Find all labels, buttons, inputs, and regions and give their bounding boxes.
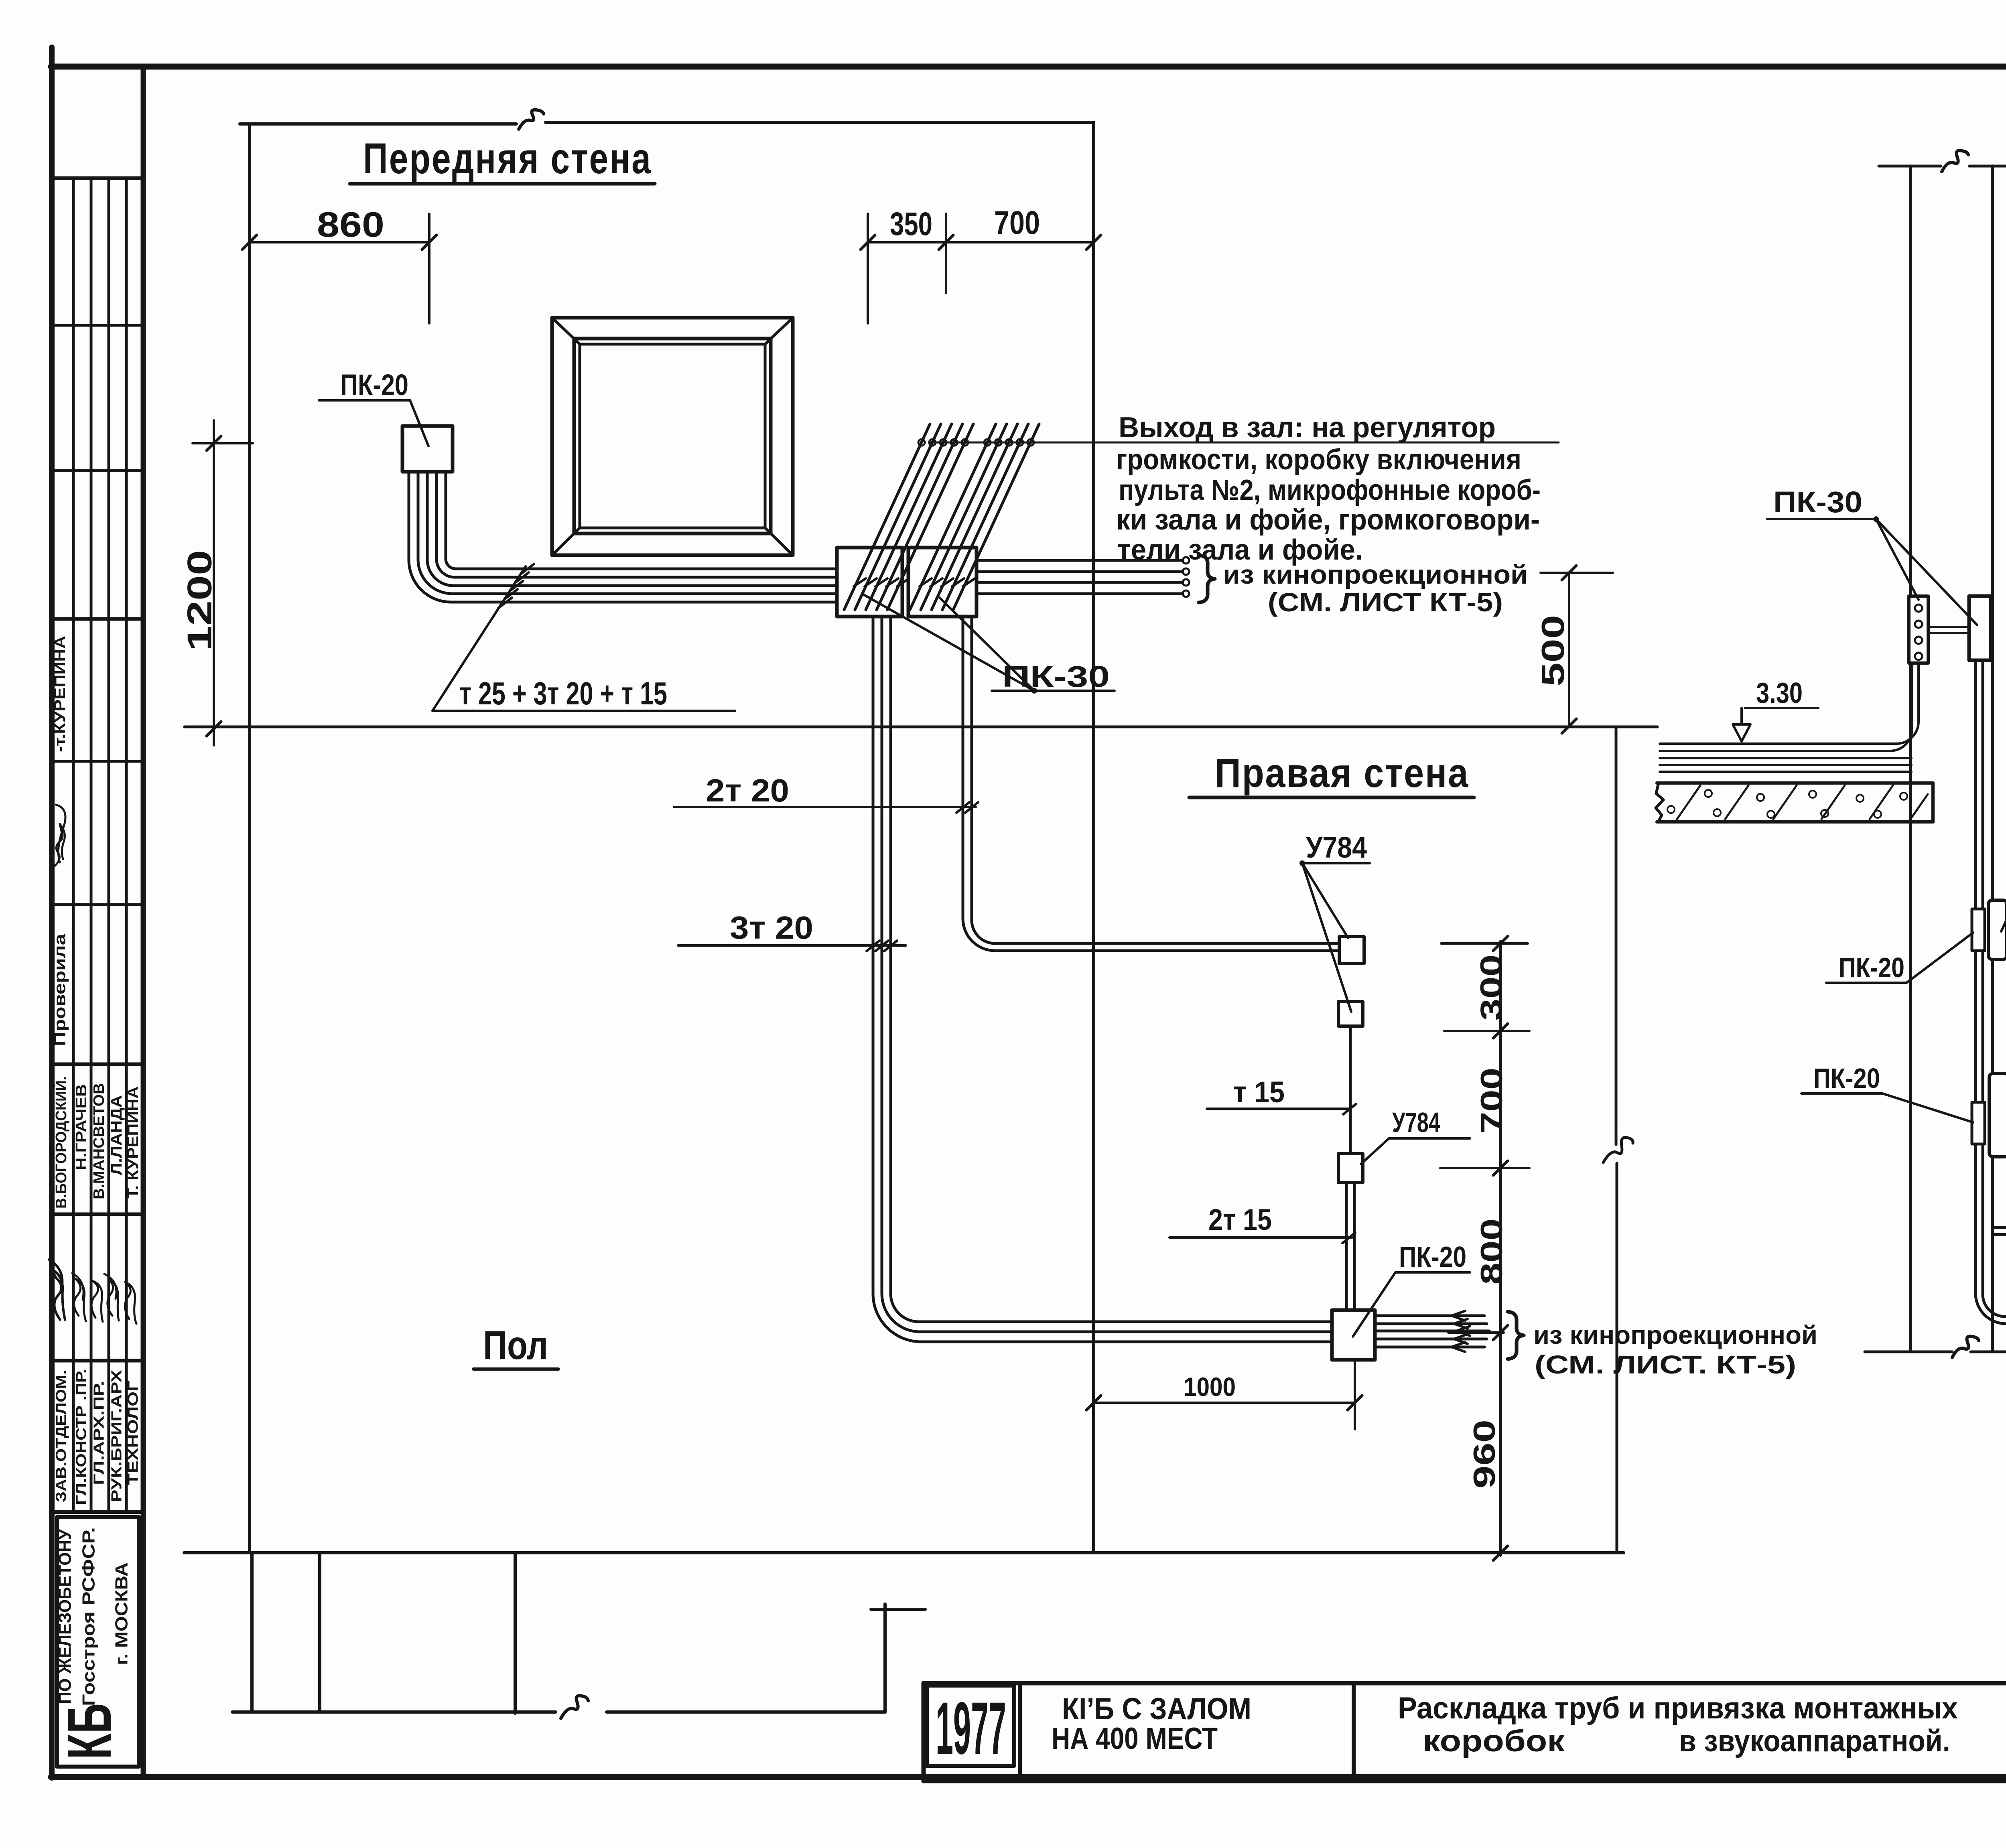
output tube 3 bbox=[1375, 1330, 1489, 1333]
slash ticks 2t20 bbox=[956, 802, 969, 813]
label 2t15 underline bbox=[1169, 1236, 1352, 1239]
stamp row divider y444 bbox=[52, 176, 143, 180]
stamp row divider y1898 bbox=[52, 760, 143, 763]
stamp row divider y1173 bbox=[52, 469, 143, 472]
front wall top edge break squiggle bbox=[519, 110, 544, 129]
floor plan wall stub x2206 bbox=[883, 1604, 887, 1712]
tube triple 3t20 line 1 (from box A down, bend right to PK-20) bbox=[873, 617, 1332, 1342]
svg-text:Выход в зал: на регулятор: Выход в зал: на регулятор bbox=[1119, 412, 1496, 444]
chain terminator y2352 bbox=[1441, 942, 1528, 945]
concrete slab bottom edge bbox=[1657, 820, 1933, 824]
svg-text:3т 20: 3т 20 bbox=[730, 910, 813, 945]
uzel A left boundary line lower part bbox=[1616, 1163, 1618, 1553]
svg-text:Проверила: Проверила bbox=[51, 933, 69, 1046]
dimension tick x2163 bbox=[861, 235, 875, 250]
output tube 2 bbox=[1375, 1323, 1487, 1325]
output tube 1 from box B to hall bbox=[977, 559, 1183, 562]
svg-text:700: 700 bbox=[1475, 1068, 1509, 1134]
stamp column internal vertical 2 bbox=[90, 178, 93, 1512]
svg-text:Передняя стена: Передняя стена bbox=[363, 134, 652, 183]
Pol label underline bbox=[473, 1367, 558, 1371]
box U784 no.2 bbox=[1338, 1002, 1363, 1026]
stamp column inner vertical bbox=[141, 67, 146, 1777]
dimension 860 tick left bbox=[242, 235, 257, 250]
level mark 3.30 triangle bbox=[1733, 724, 1750, 741]
tube 1 from PK-20 (vertical+bend+horizontal to PK-30) bbox=[409, 472, 837, 602]
dimension 860 tick right bbox=[422, 235, 437, 250]
chain terminator y2912 bbox=[1440, 1167, 1529, 1169]
floor line 0.00 lower with step bbox=[1992, 1235, 2006, 1304]
label 2t20 underline bbox=[674, 806, 976, 808]
stamp row divider y2255 bbox=[52, 903, 143, 906]
floor plan wall stub x628 bbox=[250, 1553, 254, 1712]
svg-text:из кинопроекционной: из кинопроекционной bbox=[1223, 560, 1528, 589]
svg-text:960: 960 bbox=[1468, 1420, 1502, 1489]
label PK-20 u1 leader bbox=[1907, 933, 1973, 983]
uzel A boundary break squiggle bbox=[1603, 1137, 1633, 1162]
sheet frame bottom line bbox=[51, 1774, 2006, 1780]
title block bottom line bbox=[924, 1779, 2006, 1783]
leader line to hall (long thin, underlines Vyhod text) bbox=[930, 442, 1559, 444]
tube 4 from PK-20 bbox=[437, 472, 837, 577]
stamp column internal vertical 1 bbox=[72, 178, 75, 1512]
dimension line 350-700 bbox=[868, 241, 1094, 243]
title block top line bbox=[924, 1681, 2006, 1686]
dimension 860 extension line x1070 bbox=[428, 214, 430, 323]
output tube 3 from box B bbox=[977, 581, 1183, 584]
stamp signature (Kurepina autograph, rotated) bbox=[54, 805, 65, 866]
svg-text:(СМ. ЛИСТ. КТ-5): (СМ. ЛИСТ. КТ-5) bbox=[1535, 1350, 1796, 1379]
svg-text:1200: 1200 bbox=[181, 550, 219, 651]
front wall top edge line (left part) bbox=[240, 122, 516, 126]
box PK-20 small lower bbox=[1972, 1102, 1985, 1144]
output tube 2 from box B bbox=[977, 570, 1183, 573]
stamp row divider y3027 bbox=[52, 1213, 143, 1216]
label PK-20 u2 underline bbox=[1801, 1092, 1882, 1095]
dimension 1200 tick bottom bbox=[207, 722, 221, 736]
tube 3 from PK-20 bbox=[427, 472, 837, 586]
stamp row divider y3769 bbox=[52, 1510, 143, 1514]
label PK-20 right wall underline bbox=[1395, 1271, 1470, 1274]
connector tubes between PK-30 boxes bbox=[1928, 626, 1969, 628]
sheet frame left outer line bbox=[49, 47, 55, 1778]
front wall right edge vertical x2726 bbox=[1092, 122, 1095, 1553]
tube t15 between box2 and box3 bbox=[1349, 1026, 1352, 1154]
level mark 3.30 stem bbox=[1740, 708, 1743, 724]
stamp row divider y2653 bbox=[52, 1063, 143, 1066]
svg-text:ГЛ.КОНСТР .ПР.: ГЛ.КОНСТР .ПР. bbox=[73, 1369, 89, 1505]
junction box PK-30 left (edge view with holes) bbox=[1909, 596, 1928, 663]
svg-text:ПК-30: ПК-30 bbox=[1002, 660, 1110, 693]
bundle line4 on slab bbox=[1660, 764, 1911, 766]
uzel A wall right line bbox=[1991, 166, 1994, 1351]
svg-text:ТЕХНОЛОГ: ТЕХНОЛОГ bbox=[125, 1381, 141, 1485]
svg-text:громкости, коробку включения: громкости, коробку включения bbox=[1116, 444, 1521, 476]
svg-text:ПК-20: ПК-20 bbox=[340, 368, 408, 402]
output tube 4 from box B bbox=[977, 592, 1183, 595]
stamp signatures row (rotated squiggles) bbox=[49, 1260, 65, 1320]
svg-text:Пол: Пол bbox=[483, 1323, 548, 1368]
svg-text:500: 500 bbox=[1535, 615, 1571, 686]
dimension 1000 extension below PK-20 bbox=[1354, 1360, 1356, 1429]
curly brace from kinoprojection (front wall) bbox=[1199, 555, 1215, 602]
label PK-20 leader bbox=[410, 400, 428, 446]
floor plan line B break squiggle bbox=[561, 1696, 588, 1718]
svg-text:1977: 1977 bbox=[936, 1687, 1006, 1770]
chain ticks bbox=[1493, 936, 1508, 951]
tube pair 2t15 below box3 bbox=[1345, 1183, 1348, 1310]
chain terminator y3322 bbox=[1448, 1331, 1504, 1334]
level mark 3.30 underline bbox=[1745, 707, 1818, 709]
floor plan lower line B left segment bbox=[232, 1710, 556, 1714]
bundle line3 on slab bbox=[1660, 757, 1911, 759]
svg-text:860: 860 bbox=[317, 205, 384, 244]
floor line 0.00 upper with step bbox=[1992, 1227, 2006, 1296]
title block divider 2 bbox=[1352, 1683, 1356, 1781]
label underline t25+3t20+t15 bbox=[432, 710, 735, 712]
svg-text:ПК-20: ПК-20 bbox=[1399, 1241, 1466, 1273]
svg-text:КБ: КБ bbox=[55, 1703, 124, 1759]
uzel A bottom break squiggle bbox=[1952, 1336, 1979, 1357]
stamp column internal vertical 3 bbox=[108, 178, 110, 1512]
slash ticks in box B bbox=[920, 578, 932, 586]
box PK-20 small upper bbox=[1972, 909, 1985, 951]
label U784 leader to box2 bbox=[1302, 863, 1351, 1012]
dimension 1200 tick top bbox=[207, 436, 221, 450]
svg-text:-т.КУРЕПИНА: -т.КУРЕПИНА bbox=[52, 636, 69, 752]
svg-text:Т. КУРЕПИНА: Т. КУРЕПИНА bbox=[125, 1086, 142, 1199]
title underline bbox=[350, 182, 655, 186]
chain terminator y2570 bbox=[1444, 1030, 1529, 1032]
fork marks at diagonal tops group B bbox=[984, 439, 991, 446]
svg-text:НА 400 МЕСТ: НА 400 МЕСТ bbox=[1052, 1722, 1218, 1756]
label PK-30 underline (front wall) bbox=[992, 690, 1115, 692]
diagonal tube group from box A (5 lines) bbox=[844, 424, 930, 610]
label PK-20 u2 leader bbox=[1882, 1093, 1973, 1122]
label 60K31 leader bbox=[2001, 849, 2006, 931]
dimension 1000 line bbox=[1094, 1402, 1355, 1404]
sheet frame top line bbox=[51, 64, 2006, 70]
junction box PK-20 right wall bbox=[1332, 1310, 1375, 1360]
output tube 1 from PK-20 right wall bbox=[1375, 1314, 1484, 1317]
dimension 1200 top terminator bbox=[193, 442, 253, 444]
title block divider 1 bbox=[1018, 1683, 1022, 1781]
dimension 350/700 extension line x2358 bbox=[945, 214, 947, 293]
tube pair down the wall line2 bbox=[1983, 660, 2006, 1317]
slash ticks on tube bundle bbox=[498, 598, 512, 608]
dimension chain vertical x3740 bbox=[1499, 941, 1502, 1556]
label t15 underline bbox=[1207, 1108, 1349, 1110]
leader for tube bundle label bbox=[432, 566, 526, 711]
stamp row divider y811 bbox=[52, 324, 143, 327]
dimension 1000 ticks bbox=[1086, 1396, 1101, 1410]
svg-text:КІʼБ С ЗАЛОМ: КІʼБ С ЗАЛОМ bbox=[1062, 1692, 1251, 1726]
stamp column internal vertical 4 bbox=[125, 178, 128, 1512]
svg-text:Правая стена: Правая стена bbox=[1215, 750, 1469, 796]
dimension 350 extension line x2163 bbox=[867, 214, 869, 323]
svg-text:Госстроя РСФСР.: Госстроя РСФСР. bbox=[79, 1527, 99, 1706]
tube pair 2t20 line 2 bbox=[972, 617, 1339, 943]
title block left edge bbox=[922, 1683, 926, 1781]
svg-text:РУК.БРИГ.АРХ: РУК.БРИГ.АРХ bbox=[108, 1370, 125, 1502]
window opening inner rect (outer of double) bbox=[574, 339, 771, 534]
stamp org block border bbox=[57, 1517, 139, 1767]
junction box PK-20 front wall bbox=[402, 426, 453, 472]
window bevel diagonal top-left bbox=[552, 318, 580, 344]
dimension tick x2358 bbox=[939, 235, 953, 250]
tube 2 from PK-20 bbox=[418, 472, 837, 594]
label U784 leader to box1 bbox=[1302, 863, 1348, 938]
floor plan wall stub x1284 bbox=[514, 1553, 517, 1713]
svg-text:1000: 1000 bbox=[1184, 1372, 1236, 1402]
svg-text:(СМ. ЛИСТ КТ-5): (СМ. ЛИСТ КТ-5) bbox=[1268, 587, 1503, 617]
svg-text:ПК-20: ПК-20 bbox=[1839, 952, 1904, 983]
svg-text:ЗАВ.ОТДЕЛОМ.: ЗАВ.ОТДЕЛОМ. bbox=[53, 1370, 69, 1502]
fork marks at diagonal tops group A bbox=[918, 439, 925, 446]
floor plan wall stub x797 bbox=[318, 1553, 321, 1712]
slash ticks 3t20 bbox=[867, 941, 879, 951]
year 1977 box bbox=[927, 1686, 1014, 1766]
curly brace iz kinopr. right wall bbox=[1508, 1312, 1524, 1359]
svg-text:т 25 + 3т 20 + т 15: т 25 + 3т 20 + т 15 bbox=[459, 676, 667, 711]
PK-30 leader to right box bbox=[1876, 519, 1977, 625]
dimension 500 tick top bbox=[1562, 566, 1576, 580]
floor plan bottom boundary line A bbox=[184, 1551, 1624, 1554]
label PK-20 u1 underline bbox=[1826, 982, 1907, 984]
svg-text:из кинопроекционной: из кинопроекционной bbox=[1533, 1321, 1817, 1349]
svg-text:3.30: 3.30 bbox=[1756, 677, 1803, 709]
svg-text:2т 15: 2т 15 bbox=[1208, 1203, 1272, 1236]
label U784 no.2 leader bbox=[1361, 1138, 1389, 1164]
label PK-30 uzel A underline bbox=[1767, 518, 1876, 520]
svg-text:700: 700 bbox=[994, 205, 1040, 241]
svg-text:ки зала и фойе, громкоговори-: ки зала и фойе, громкоговори- bbox=[1116, 504, 1540, 536]
svg-text:300: 300 bbox=[1474, 955, 1509, 1021]
concrete slab left edge with break bbox=[1656, 783, 1663, 822]
dimension 500 top terminator bbox=[1541, 572, 1613, 574]
svg-text:коробок: коробок bbox=[1423, 1724, 1565, 1758]
diagonal tube group from box B (5 lines) bbox=[910, 424, 996, 610]
svg-text:В.БОГОРОДСКИЙ.: В.БОГОРОДСКИЙ. bbox=[52, 1076, 70, 1209]
svg-text:2т 20: 2т 20 bbox=[706, 773, 789, 808]
title underline bbox=[1189, 796, 1474, 799]
arrowheads on output tubes bbox=[1452, 1311, 1465, 1321]
svg-text:Л.ЛАНДА: Л.ЛАНДА bbox=[108, 1095, 125, 1175]
label PK-20 underline bbox=[319, 399, 410, 402]
tube from left PK-30 down bending into bundle line1 bbox=[1660, 663, 1919, 744]
bundle line5 on slab bbox=[1660, 771, 1911, 773]
uzel A top break squiggle bbox=[1942, 150, 1968, 172]
uzel A bottom break line bbox=[1865, 1351, 1952, 1353]
svg-text:в звукоаппаратной.: в звукоаппаратной. bbox=[1679, 1724, 1950, 1758]
front wall top edge line (right part) bbox=[546, 121, 1094, 124]
dimension 500 line bbox=[1568, 573, 1570, 726]
concrete slab top edge bbox=[1657, 781, 1933, 785]
box 60K31 no.1 bbox=[1988, 900, 2006, 959]
front wall left edge / extension line x622 bbox=[248, 124, 251, 1553]
svg-text:У784: У784 bbox=[1306, 831, 1367, 864]
uzel A left boundary line upper part bbox=[1615, 727, 1618, 1144]
label 3t20 underline bbox=[678, 944, 906, 947]
window opening inner rect (inner of double) bbox=[580, 344, 765, 528]
PK-30 leader to box B bbox=[940, 598, 1034, 691]
window bevel diagonal bottom-left bbox=[552, 528, 580, 555]
tube pair 2t20 line 1 (from box B down, bend right to U784) bbox=[963, 617, 1339, 951]
tube pair down the wall line1 bbox=[1976, 660, 2006, 1324]
floor plan wall tick line y4012 bbox=[871, 1608, 925, 1611]
tube 5 from PK-20 bbox=[446, 472, 837, 569]
slab hatch diagonal lines bbox=[1677, 785, 1700, 819]
svg-text:Раскладка труб и привязка мон: Раскладка труб и привязка монтажных bbox=[1398, 1691, 1958, 1725]
svg-text:ГЛ.АРХ.ПР.: ГЛ.АРХ.ПР. bbox=[91, 1381, 107, 1485]
tube bend into bundle line2 bbox=[1660, 663, 1912, 751]
tube triple 3t20 line 2 bbox=[882, 617, 1332, 1332]
window bevel diagonal top-right bbox=[765, 318, 793, 344]
dimension 500 tick bottom bbox=[1562, 719, 1576, 733]
label U784 underline bbox=[1302, 862, 1370, 864]
dimension line 860 bbox=[250, 241, 429, 243]
svg-text:ПК-20: ПК-20 bbox=[1813, 1063, 1880, 1094]
slash ticks in box A bbox=[854, 578, 866, 586]
window opening outer rect bbox=[552, 318, 793, 555]
stamp row divider y3392 bbox=[52, 1359, 143, 1363]
label PK-20 right wall leader bbox=[1353, 1272, 1395, 1337]
box U784 no.3 bbox=[1338, 1154, 1363, 1183]
PK-30 leader to box A bbox=[863, 594, 1034, 691]
floor plan lower line B right segment bbox=[607, 1710, 885, 1714]
svg-text:350: 350 bbox=[890, 206, 932, 242]
slash tick 2t15 bbox=[1342, 1233, 1355, 1243]
box U784 no.1 bbox=[1339, 937, 1364, 964]
svg-text:Н.ГРАЧЕВ: Н.ГРАЧЕВ bbox=[73, 1084, 90, 1170]
svg-text:г. МОСКВА: г. МОСКВА bbox=[112, 1562, 132, 1665]
tube triple 3t20 line 3 bbox=[891, 617, 1332, 1322]
label U784 no.2 underline bbox=[1389, 1137, 1470, 1140]
output tube 4 bbox=[1375, 1338, 1487, 1341]
dimension 1200 line x533 bbox=[213, 420, 215, 745]
dimension tick x2726 bbox=[1086, 235, 1101, 250]
junction box PK-30 A front wall bbox=[837, 548, 902, 617]
junction box PK-30 right (on wall) bbox=[1969, 596, 1991, 660]
uzel A wall left line bbox=[1909, 166, 1912, 1351]
output tube 5 bbox=[1375, 1346, 1484, 1349]
svg-text:800: 800 bbox=[1475, 1219, 1509, 1285]
box 6K-203 no.2 bbox=[1989, 1073, 2006, 1157]
tube end circles bbox=[1183, 557, 1189, 564]
slash tick t15 bbox=[1343, 1104, 1356, 1114]
stamp row divider y1543 bbox=[52, 617, 143, 621]
svg-text:В.МАНСВЕТОВ: В.МАНСВЕТОВ bbox=[91, 1083, 108, 1199]
svg-text:ПО ЖЕЛЕЗОБЕТОНУ: ПО ЖЕЛЕЗОБЕТОНУ bbox=[55, 1529, 75, 1704]
concrete slab right edge bbox=[1931, 783, 1935, 822]
svg-text:ПК-30: ПК-30 bbox=[1773, 485, 1862, 519]
uzel A top break line bbox=[1879, 165, 1941, 168]
section divider line y1810 bbox=[185, 726, 1657, 728]
window bevel diagonal bottom-right bbox=[765, 528, 793, 555]
slab hatch circles bbox=[1667, 806, 1675, 813]
svg-text:У784: У784 bbox=[1392, 1107, 1440, 1138]
junction box PK-30 B front wall bbox=[908, 548, 977, 617]
svg-text:т 15: т 15 bbox=[1233, 1075, 1285, 1109]
svg-text:пульта №2, микрофонные короб-: пульта №2, микрофонные короб- bbox=[1119, 474, 1541, 506]
PK-30 leader to left box bbox=[1876, 519, 1919, 600]
